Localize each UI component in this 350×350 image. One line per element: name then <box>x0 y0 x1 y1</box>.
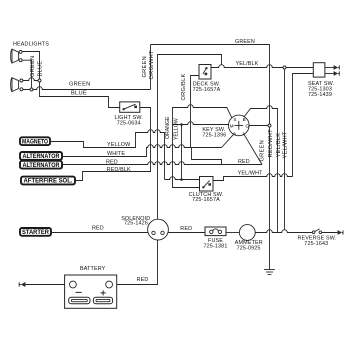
wire solenoid to fuse <box>168 232 205 234</box>
svg-text:GREEN: GREEN <box>259 140 265 161</box>
node green junction <box>30 88 33 91</box>
svg-text:YELLOW: YELLOW <box>107 142 131 148</box>
wire lamp2 top with hop over green vertical <box>23 78 40 81</box>
svg-text:HEADLIGHTS: HEADLIGHTS <box>13 42 49 48</box>
svg-text:RED: RED <box>238 159 250 165</box>
seat switch SS1 <box>313 63 325 77</box>
wire YEL/BLK rail from deck switch to seat switch <box>211 65 313 68</box>
wire BLUE vertical down and to light switch <box>40 82 120 108</box>
svg-text:725-1657A: 725-1657A <box>192 197 220 203</box>
wire GREEN vertical up to top rail <box>150 45 152 90</box>
node YEL/BLK junction <box>283 66 286 69</box>
svg-text:BLUE: BLUE <box>38 61 44 77</box>
magneto box <box>20 137 50 145</box>
wire starter to solenoid <box>51 232 148 234</box>
svg-text:725-1426: 725-1426 <box>124 221 148 227</box>
solenoid SOL1 <box>148 219 169 240</box>
key switch KS1 <box>229 115 250 136</box>
svg-text:725-0634: 725-0634 <box>117 121 141 127</box>
wire battery negative to chassis connector <box>25 284 64 286</box>
afterfire solenoid box <box>21 177 75 185</box>
headlight lamp 2 <box>11 78 23 92</box>
reverse switch RS1 <box>312 229 343 235</box>
wire solenoid bottom to battery positive <box>117 240 158 285</box>
wire WHITE from alternator 1: row, step up, to key A line <box>62 145 222 157</box>
svg-text:725-1381: 725-1381 <box>204 243 228 249</box>
alternator box 2 <box>20 161 62 169</box>
svg-text:ORANGE: ORANGE <box>165 116 171 139</box>
seat switch connector pins <box>325 65 339 76</box>
svg-text:YELLOW: YELLOW <box>173 118 179 140</box>
wire ammeter to reverse switch with hops <box>255 230 312 233</box>
wire ORG/BLK deck switch left lead down <box>191 76 200 148</box>
wire ORG/WHT: top link rail down to solenoid <box>158 55 222 220</box>
svg-text:B: B <box>243 117 246 122</box>
svg-text:YEL/BLK: YEL/BLK <box>236 61 259 67</box>
svg-text:725-1439: 725-1439 <box>308 92 332 98</box>
wire YEL/WHT seat switch lower lead down <box>293 74 314 177</box>
svg-text:GREEN: GREEN <box>235 39 255 45</box>
svg-text:725-1657A: 725-1657A <box>193 87 221 93</box>
wire key M lead to left, down (V4) <box>173 122 229 125</box>
battery BT1 <box>65 275 117 308</box>
wire GREEN top rail across to right, down to ground <box>151 45 270 270</box>
wire RED from alternator 2 to key L diagonal <box>62 162 262 165</box>
svg-text:BATTERY: BATTERY <box>80 266 106 272</box>
svg-text:RED: RED <box>137 277 149 283</box>
wire key G lead to green rail <box>249 125 269 127</box>
svg-text:ALTERNATOR: ALTERNATOR <box>23 163 61 169</box>
alternator box 1 <box>20 152 62 160</box>
svg-text:RED: RED <box>180 226 192 232</box>
node V6 bottom junction <box>180 178 183 181</box>
node M junction with yellow vertical <box>180 123 183 126</box>
wire link V3 bottom to clutch switch upper lead <box>165 177 200 180</box>
svg-text:STARTER: STARTER <box>22 230 50 236</box>
node G junction on green rail <box>268 124 271 127</box>
light switch LS1 <box>120 102 140 112</box>
wire lamp1 bottom down (GREEN) <box>22 60 31 88</box>
svg-text:ORG/BLK: ORG/BLK <box>181 73 187 100</box>
svg-text:ORG/WHT: ORG/WHT <box>149 50 155 80</box>
wire key B lead up right, RED/WHT down to ammeter <box>244 106 278 233</box>
wire GREEN horizontal with hop over blue vertical <box>23 87 151 90</box>
deck switch DS1 <box>199 65 211 80</box>
wire BLUE from lamp1 top down to lamp2 junction <box>22 52 39 80</box>
wire YELLOW from magneto: elbow, row, step up, to V3 down <box>50 130 165 180</box>
svg-text:BLUE: BLUE <box>71 91 87 97</box>
node blue junction <box>38 79 41 82</box>
svg-text:725-1396: 725-1396 <box>202 132 226 138</box>
wire branch from white line down to red line <box>192 148 222 165</box>
svg-text:AFTERFIRE SOL.: AFTERFIRE SOL. <box>24 179 73 185</box>
svg-text:WHITE: WHITE <box>107 151 125 157</box>
fuse F1 <box>205 227 226 236</box>
wire ORANGE: key S lead to left, down to clutch switch <box>173 105 232 188</box>
wire light switch output down (V1) and RED/BLK to afterfire solenoid <box>75 108 151 181</box>
svg-text:GREEN: GREEN <box>30 56 36 77</box>
svg-text:725-0925: 725-0925 <box>237 246 261 252</box>
svg-text:YEL/WHT: YEL/WHT <box>238 171 264 177</box>
svg-text:GREEN: GREEN <box>69 81 90 87</box>
ground <box>264 270 275 275</box>
wire YEL/BLK vertical from junction down to ammeter row <box>284 69 286 230</box>
wire key L diagonal down to red line <box>244 134 262 165</box>
wire YELLOW vertical V6 <box>181 125 183 180</box>
svg-text:725-1643: 725-1643 <box>304 241 328 247</box>
svg-text:RED: RED <box>92 225 104 231</box>
svg-text:M: M <box>230 123 234 128</box>
svg-text:RED: RED <box>106 159 118 165</box>
svg-text:S: S <box>233 117 236 122</box>
svg-text:ALTERNATOR: ALTERNATOR <box>23 154 61 160</box>
clutch switch CS1 <box>200 177 214 192</box>
svg-text:MAGNETO: MAGNETO <box>22 139 48 145</box>
svg-text:G: G <box>245 123 249 128</box>
svg-text:GREEN: GREEN <box>142 56 148 77</box>
wire YEL/WHT from clutch switch right to seat vertical <box>213 174 293 181</box>
svg-text:YEL/BLK: YEL/BLK <box>276 133 282 158</box>
svg-text:RED/BLK: RED/BLK <box>107 167 131 173</box>
svg-text:RED/WHT: RED/WHT <box>268 129 274 158</box>
wire fuse to ammeter <box>226 232 240 234</box>
battery ground connector <box>19 282 25 287</box>
headlight lamp 1 <box>11 49 22 63</box>
svg-text:YEL/WHT: YEL/WHT <box>283 131 289 158</box>
starter box <box>20 228 51 236</box>
ammeter AM1 <box>239 225 255 241</box>
wire key A diagonal down to white line <box>222 134 235 148</box>
